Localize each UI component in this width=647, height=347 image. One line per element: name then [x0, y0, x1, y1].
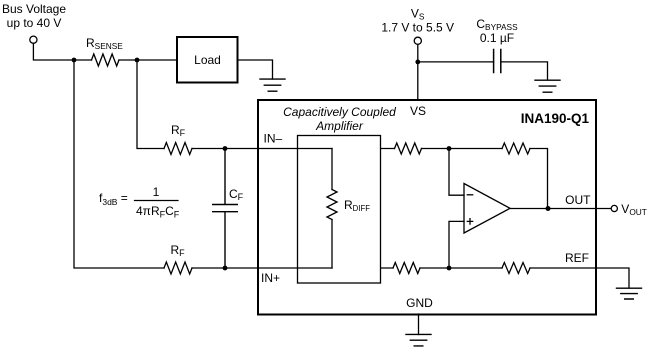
svg-text:VOUT: VOUT: [621, 202, 647, 217]
wire: IN- pin into block: [258, 148, 332, 150]
junction: non-inverting input node: [447, 266, 452, 271]
svg-text:up to 40 V: up to 40 V: [7, 16, 62, 30]
wire: node A down to IN+ row: [74, 60, 164, 268]
svg-text:CF: CF: [229, 187, 244, 202]
wire: RDIFF top lead: [331, 149, 333, 190]
junction: sense node B: [135, 58, 140, 63]
wire: block output top to R1: [381, 148, 502, 150]
wire: node B down to IN- row: [137, 60, 164, 149]
junction: VS node: [415, 60, 420, 65]
svg-text:VS: VS: [411, 7, 425, 22]
svg-text:Capacitively Coupled: Capacitively Coupled: [283, 105, 396, 119]
wire: feedback to output node: [530, 149, 548, 209]
junction: inverting input node: [447, 146, 452, 151]
svg-text:RF: RF: [171, 243, 186, 258]
wire: VS node to CBYPASS: [418, 61, 494, 63]
wire: RF bottom to IN+ pin: [192, 267, 258, 269]
ground (GND): [406, 334, 431, 346]
ground (bypass): [535, 80, 560, 92]
svg-text:OUT: OUT: [565, 193, 591, 207]
inner box: capacitively coupled amplifier block: [298, 136, 381, 284]
svg-text:f3dB =: f3dB =: [99, 191, 128, 207]
junction: bus node A: [72, 58, 77, 63]
svg-text:VS: VS: [410, 104, 426, 118]
capacitor CF: [213, 149, 238, 269]
wire: RDIFF bottom lead: [331, 220, 333, 269]
svg-text:RF: RF: [171, 123, 186, 138]
wire: non-inverting input from below: [449, 221, 464, 268]
wire: load to ground: [238, 60, 273, 79]
wire: IN+ pin into block: [258, 267, 332, 269]
svg-text:CBYPASS: CBYPASS: [476, 17, 518, 32]
resistor R3 (bottom input): [393, 263, 420, 274]
junction: CF bottom: [223, 266, 228, 271]
load: [177, 37, 238, 83]
svg-text:RSENSE: RSENSE: [86, 36, 123, 51]
wire: GND pin to ground: [418, 314, 420, 335]
wire: bus terminal down and right to Load: [33, 43, 177, 60]
svg-text:1.7 V to 5.5 V: 1.7 V to 5.5 V: [381, 21, 454, 35]
formula f3dB = 1/(4*pi*RF*CF): [99, 185, 180, 220]
IC box INA190-Q1: [258, 100, 596, 315]
terminal: bus voltage input: [30, 36, 37, 43]
op-amp U1: [464, 184, 510, 234]
resistor RF (top): [164, 143, 192, 155]
resistor R2 (top feedback): [502, 143, 530, 154]
svg-text:1: 1: [153, 185, 160, 199]
ground (load): [260, 79, 285, 91]
wire: RF top to IN- pin: [192, 148, 258, 150]
resistor RDIFF: [327, 190, 337, 220]
wire: op-amp output to OUT pin and VOUT: [510, 208, 611, 210]
terminal: VOUT: [611, 205, 617, 211]
ground (REF): [617, 288, 642, 299]
wire: CBYPASS to ground: [501, 62, 548, 80]
svg-text:IN+: IN+: [261, 271, 280, 285]
svg-text:Load: Load: [194, 53, 221, 67]
resistor RF (bottom): [164, 262, 192, 274]
wire: REF pin to ground: [530, 268, 629, 288]
capacitor CBYPASS: [494, 50, 501, 73]
svg-text:Amplifier: Amplifier: [315, 119, 364, 133]
resistor R4 (REF): [502, 263, 530, 274]
resistor RSENSE: [92, 54, 119, 66]
wire: inverting input node down to op-amp: [449, 149, 464, 196]
svg-text:Bus Voltage: Bus Voltage: [2, 2, 66, 16]
svg-text:REF: REF: [565, 251, 589, 265]
svg-text:0.1 µF: 0.1 µF: [480, 31, 514, 45]
svg-text:RDIFF: RDIFF: [344, 198, 370, 213]
junction: output node: [546, 206, 551, 211]
terminal: VS supply: [414, 37, 421, 44]
svg-text:INA190-Q1: INA190-Q1: [521, 111, 590, 126]
wire: block output bottom to R3: [381, 267, 502, 269]
svg-text:GND: GND: [406, 296, 433, 310]
resistor R1 (top input): [395, 143, 422, 154]
svg-text:IN–: IN–: [264, 132, 283, 146]
junction: CF top: [223, 146, 228, 151]
wire: VS terminal down to VS pin: [417, 44, 419, 100]
svg-text:4πRFCF: 4πRFCF: [136, 204, 180, 220]
